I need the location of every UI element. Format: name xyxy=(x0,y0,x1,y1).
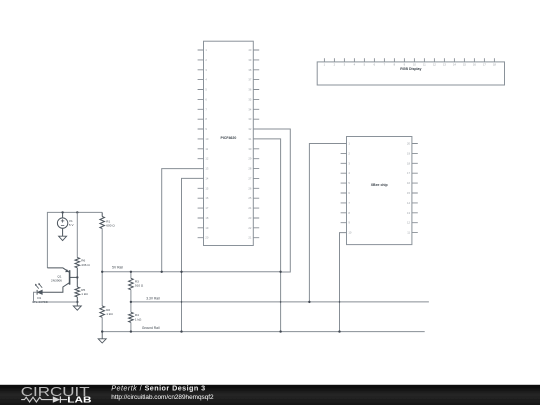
svg-text:20: 20 xyxy=(407,142,410,146)
svg-text:22: 22 xyxy=(248,226,251,230)
node 5V rail / pin13 wire xyxy=(161,271,163,273)
svg-text:25: 25 xyxy=(248,196,251,200)
node 3.3V rail crossing pin31 wire xyxy=(280,301,282,303)
resistor R4 xyxy=(129,302,142,332)
IC DISP1 RGB Display xyxy=(317,58,504,85)
node 3.3V rail / XBee pin1 wire xyxy=(308,301,310,303)
node R5 bottom junction xyxy=(76,301,78,303)
resistor R5 xyxy=(75,277,88,302)
node 5V rail / R3 top xyxy=(130,271,132,273)
node V1 top junction xyxy=(61,211,63,213)
svg-text:18: 18 xyxy=(407,161,410,165)
svg-text:19: 19 xyxy=(205,226,208,230)
svg-text:30: 30 xyxy=(248,147,251,151)
svg-text:11: 11 xyxy=(205,147,208,151)
wire 5V rail xyxy=(102,271,280,273)
svg-text:29: 29 xyxy=(248,157,251,161)
ground below R2 xyxy=(98,332,106,343)
svg-text:12: 12 xyxy=(407,221,410,225)
ground below V1 xyxy=(59,236,67,240)
svg-text:16: 16 xyxy=(205,196,208,200)
svg-text:16: 16 xyxy=(407,181,410,185)
svg-text:1 kΩ: 1 kΩ xyxy=(81,292,88,296)
svg-text:37: 37 xyxy=(248,78,251,82)
wire supply top xyxy=(47,212,102,268)
node 3.3V rail crossing pin14 wire xyxy=(181,301,183,303)
svg-text:5V Rail: 5V Rail xyxy=(112,265,123,269)
node ground rail / XBee pin10 wire xyxy=(338,330,340,332)
svg-text:15: 15 xyxy=(407,191,410,195)
svg-text:34: 34 xyxy=(248,107,251,111)
logo CIRCUIT LAB xyxy=(21,384,92,405)
wire XBee pin10 to ground rail xyxy=(340,233,347,332)
LED D1 xyxy=(32,283,47,304)
node 3.3V rail / R3 R4 xyxy=(130,301,132,303)
node R6 top junction xyxy=(76,211,78,213)
resistor R1 xyxy=(100,212,115,271)
svg-text:PICF4620: PICF4620 xyxy=(221,136,237,140)
svg-text:17: 17 xyxy=(205,206,208,210)
svg-text:23: 23 xyxy=(248,216,251,220)
IC U1 PICF4620 xyxy=(198,41,260,245)
svg-text:38: 38 xyxy=(248,68,251,72)
node base junction xyxy=(76,276,78,278)
svg-text:36: 36 xyxy=(248,88,251,92)
svg-text:14: 14 xyxy=(407,201,410,205)
svg-text:33: 33 xyxy=(248,117,251,121)
svg-text:12: 12 xyxy=(205,157,208,161)
node 5V rail crossing pin14 wire xyxy=(180,271,182,273)
svg-text:1 kΩ: 1 kΩ xyxy=(106,312,113,316)
node ground rail / pin31 wire xyxy=(279,330,281,332)
svg-text:20: 20 xyxy=(205,236,208,240)
wire PIC pin31 to ground rail xyxy=(253,139,280,332)
node ground rail / pin14 wire xyxy=(180,330,182,332)
node 5V rail / R1 R2 xyxy=(101,271,103,273)
ground below R5 xyxy=(73,302,81,310)
node 5V rail right end / pin31 wire xyxy=(279,271,281,273)
svg-text:10: 10 xyxy=(348,231,351,235)
svg-text:1 kΩ: 1 kΩ xyxy=(135,317,142,321)
svg-text:21: 21 xyxy=(248,236,251,240)
node 3.3V rail crossing XBee pin10 wire xyxy=(339,301,341,303)
svg-text:28: 28 xyxy=(248,167,251,171)
svg-text:13: 13 xyxy=(407,211,410,215)
wire LED cathode to ground junction xyxy=(34,292,78,302)
svg-text:3.3V Rail: 3.3V Rail xyxy=(146,296,160,300)
wire 3.3V rail xyxy=(131,301,429,303)
svg-text:13: 13 xyxy=(205,167,208,171)
wire ground rail xyxy=(102,331,425,333)
svg-text:LAB: LAB xyxy=(67,396,92,405)
svg-text:XBee chip: XBee chip xyxy=(371,183,388,187)
svg-text:17: 17 xyxy=(407,171,410,175)
svg-text:436 Ω: 436 Ω xyxy=(81,263,90,267)
node ground rail / R2 bottom xyxy=(101,330,103,332)
IC U2 XBee chip xyxy=(341,137,418,245)
svg-text:15: 15 xyxy=(205,186,208,190)
resistor R3 xyxy=(129,272,144,302)
wire PIC pin13 to 5V rail xyxy=(162,169,204,272)
svg-text:39: 39 xyxy=(248,58,251,62)
wire PIC pin14 to ground rail xyxy=(182,178,204,331)
svg-text:32: 32 xyxy=(248,127,251,131)
svg-text:Ground Rail: Ground Rail xyxy=(142,326,160,330)
wire PIC pin32 to 5V rail xyxy=(253,129,290,272)
svg-text:40: 40 xyxy=(248,48,251,52)
resistor R2 xyxy=(100,272,113,332)
resistor R6 xyxy=(75,212,90,277)
svg-text:26: 26 xyxy=(248,186,251,190)
transistor Q1 2N3906 xyxy=(42,268,77,292)
svg-text:31: 31 xyxy=(248,137,251,141)
svg-text:RGB Display: RGB Display xyxy=(400,67,421,71)
svg-text:18: 18 xyxy=(205,216,208,220)
svg-text:14: 14 xyxy=(205,176,208,180)
svg-text:Petertk / Senior Design 3: Petertk / Senior Design 3 xyxy=(111,384,205,393)
svg-text:10: 10 xyxy=(205,137,208,141)
svg-text:910 Ω: 910 Ω xyxy=(135,284,144,288)
voltage source V1 xyxy=(57,212,74,236)
node ground rail / R4 bottom xyxy=(130,330,132,332)
svg-text:19: 19 xyxy=(407,151,410,155)
svg-text:24: 24 xyxy=(248,206,251,210)
svg-text:2N3906: 2N3906 xyxy=(51,279,62,283)
svg-text:http://circuitlab.com/cn289hem: http://circuitlab.com/cn289hemqsqf2 xyxy=(111,394,214,401)
svg-text:600 Ω: 600 Ω xyxy=(106,224,115,228)
svg-text:35: 35 xyxy=(248,97,251,101)
svg-text:27: 27 xyxy=(248,176,251,180)
wire XBee pin1 to 3.3V rail xyxy=(309,144,346,302)
